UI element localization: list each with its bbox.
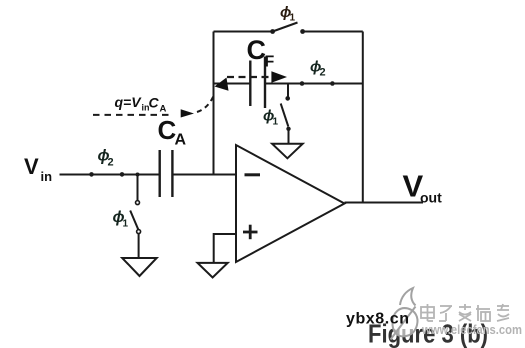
capacitor CA <box>160 150 173 197</box>
annotation q=VinCA label <box>115 94 167 115</box>
label phi2 input <box>98 148 114 169</box>
annotation arrow small right <box>181 109 194 117</box>
wire feedback right vertical <box>362 32 364 203</box>
watermark logo flame <box>391 288 418 340</box>
svg-text:C: C <box>149 95 160 111</box>
op-amp minus input sign <box>245 173 261 176</box>
wire middle junction stub <box>287 84 289 98</box>
switch S2 phi1 input branch <box>130 201 140 234</box>
wire input horizontal <box>60 174 160 176</box>
svg-text:www.elecfans.com: www.elecfans.com <box>421 323 522 337</box>
node Vout label <box>403 169 443 206</box>
wire feedback top right <box>303 31 363 33</box>
annotation dashed through CF <box>227 76 271 78</box>
label CA <box>158 115 187 149</box>
label phi1 middle <box>263 108 279 128</box>
annotation dashed underline <box>93 114 173 116</box>
node junction input <box>136 173 140 177</box>
switch S5 phi1 middle <box>281 96 291 131</box>
wire CA to op-amp <box>172 174 236 176</box>
label phi2 middle <box>310 59 326 79</box>
svg-text:1: 1 <box>273 117 279 128</box>
wire output <box>345 202 424 204</box>
op-amp plus input sign <box>243 225 258 240</box>
ground input branch <box>122 258 157 276</box>
switch S4 phi2 middle terminals <box>300 81 335 86</box>
capacitor CF <box>250 57 265 109</box>
switch S1 phi2 input terminals <box>89 172 124 177</box>
wire feedback middle branch left <box>214 83 251 85</box>
wire feedback left vertical <box>213 32 215 175</box>
svg-text:V: V <box>24 154 39 179</box>
label phi1 top <box>280 4 296 24</box>
wire junction down stub <box>137 175 139 201</box>
wire feedback middle branch right <box>265 83 363 85</box>
wire feedback top left <box>214 31 273 33</box>
svg-text:A: A <box>175 132 187 149</box>
svg-text:ybx8.cn: ybx8.cn <box>346 311 409 328</box>
svg-text:1: 1 <box>290 13 296 24</box>
label phi1 input branch <box>113 209 129 230</box>
op-amp U1 <box>236 145 345 262</box>
node Vin label <box>24 154 52 184</box>
svg-text:F: F <box>265 54 275 71</box>
svg-text:in: in <box>41 169 53 184</box>
svg-text:C: C <box>247 35 267 65</box>
annotation arrow big left <box>215 78 229 91</box>
wire middle switch to ground <box>288 130 290 144</box>
annotation arrow right after CF <box>271 71 287 83</box>
svg-text:2: 2 <box>320 67 326 79</box>
switch S3 phi1 top <box>270 23 305 34</box>
label CF <box>247 35 275 71</box>
annotation dashed curve <box>197 94 215 113</box>
svg-text:A: A <box>160 104 167 115</box>
wire plus input to ground <box>214 234 236 263</box>
watermark chinese characters <box>421 304 509 321</box>
svg-text:out: out <box>420 190 442 206</box>
svg-text:2: 2 <box>108 157 114 169</box>
svg-text:1: 1 <box>123 219 129 230</box>
svg-text:q=V: q=V <box>115 94 143 110</box>
ground middle branch <box>272 144 303 159</box>
wire switch to ground <box>138 233 140 258</box>
ground op-amp plus <box>198 263 228 278</box>
